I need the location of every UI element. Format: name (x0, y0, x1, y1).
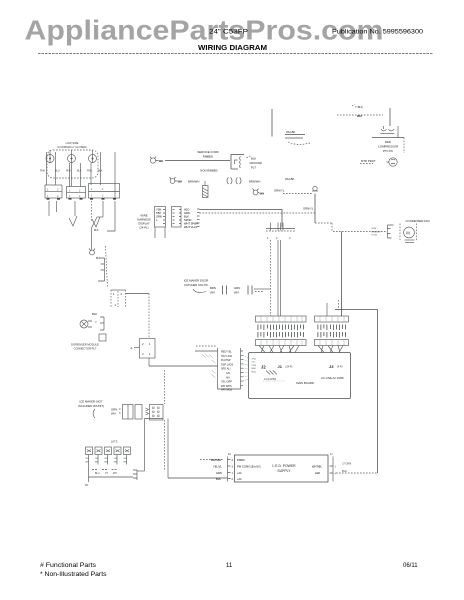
connector drops (154, 227, 156, 238)
strip J1 upper (256, 316, 307, 322)
svg-text:PWRC: PWRC (237, 458, 245, 462)
svg-text:GRN/YL: GRN/YL (274, 189, 285, 193)
J4 pin ticks right (241, 351, 244, 385)
svg-text:GROUND: GROUND (250, 161, 262, 165)
svg-text:CONNECTOR PLT: CONNECTOR PLT (74, 347, 97, 351)
svg-text:BLK: BLK (77, 170, 82, 173)
lamp L1 (46, 155, 54, 163)
wire lamp2 left lead (69, 163, 71, 187)
svg-text:+24: +24 (237, 471, 242, 475)
dashed lamp enclosure (47, 150, 98, 178)
svg-text:WH WHS: WH WHS (221, 385, 232, 388)
wire service cord line (165, 160, 230, 162)
wire below P3 right (102, 201, 104, 217)
board inner pin labels (252, 359, 257, 374)
strip J1 wire labels (258, 325, 304, 338)
svg-text:GRN: GRN (216, 471, 222, 475)
svg-text:YL2: YL2 (252, 362, 257, 364)
svg-text:BLK: BLK (94, 229, 99, 232)
main board box (249, 353, 351, 399)
wire stub C with arrow (74, 201, 76, 216)
wire right rail (377, 310, 379, 474)
ground symbol (313, 186, 317, 190)
svg-text:1: 1 (47, 189, 49, 192)
title rule (38, 53, 433, 55)
svg-text:DISPENSER MODULE: DISPENSER MODULE (71, 343, 99, 347)
svg-text:Publication No. 5995596300: Publication No. 5995596300 (332, 29, 424, 36)
svg-text:PLATNP: PLATNP (221, 359, 231, 362)
svg-text:SERVICE CORD: SERVICE CORD (197, 150, 218, 154)
light LED3 (105, 447, 112, 455)
wire to bundle (254, 288, 270, 290)
wire stub A (48, 201, 50, 216)
connector K1 (1 2 / 1) (111, 289, 126, 291)
svg-text:BRN/WH: BRN/WH (249, 180, 260, 184)
svg-text:RUN: RUN (372, 228, 377, 230)
svg-text:3: 3 (289, 236, 291, 240)
wire P3 right lead top (114, 152, 116, 198)
svg-text:VT: VT (105, 473, 109, 475)
svg-text:BLK: BLK (92, 312, 97, 316)
wire dashed pointer (247, 156, 252, 158)
connector pins row (47, 198, 117, 200)
connector pair (123, 405, 134, 420)
connector bars 1 (223, 286, 227, 295)
arrows (146, 408, 149, 415)
svg-text:L: L (156, 218, 158, 222)
PTC relay box (372, 137, 404, 139)
svg-text:1: 1 (149, 352, 151, 356)
svg-text:PTC PK: PTC PK (383, 149, 393, 153)
lamp L2 (68, 155, 76, 163)
svg-text:WHT/BL: WHT/BL (312, 465, 322, 469)
svg-text:1: 1 (149, 342, 151, 346)
svg-text:INCLUDED W/UNIT): INCLUDED W/UNIT) (78, 404, 104, 408)
svg-text:ICE MAKER DOOR: ICE MAKER DOOR (184, 279, 209, 283)
svg-text:BLK: BLK (184, 215, 189, 219)
dispenser light DL1 (80, 320, 88, 328)
strip J1 lower (256, 340, 307, 346)
svg-text:SUPPLY: SUPPLY (277, 469, 291, 473)
svg-text:PNK: PNK (40, 170, 45, 173)
svg-text:YEL-GRP: YEL-GRP (221, 381, 232, 384)
svg-text:1: 1 (113, 292, 115, 296)
wire lamp3 left lead (90, 163, 92, 185)
wire long run to J4 (149, 365, 218, 367)
svg-text:PK: PK (85, 484, 89, 487)
overload protector (389, 158, 397, 166)
svg-text:2: 2 (142, 342, 144, 346)
svg-text:41: 41 (330, 453, 333, 456)
wire ground drop (314, 194, 316, 224)
wire dashed below P3 (91, 201, 93, 221)
svg-text:GRN/YL: GRN/YL (303, 207, 314, 211)
svg-text:GN: GN (226, 372, 230, 375)
connector P1 (45, 185, 62, 198)
svg-text:AC LINE AC PWR: AC LINE AC PWR (321, 376, 344, 380)
fan-out J1 to board (259, 346, 299, 353)
input bracket (228, 457, 231, 482)
svg-text:HAT LICD: HAT LICD (221, 355, 232, 358)
wire drop right (167, 419, 169, 479)
wire dashed WH run (337, 114, 383, 116)
connector column 1 (155, 207, 166, 228)
light LED5 (124, 447, 131, 455)
J4 top dashed lead (196, 345, 217, 347)
light LED1 (86, 447, 93, 455)
connector P2 (67, 187, 86, 199)
connector small (99, 334, 106, 341)
svg-text:SPD ALI: SPD ALI (221, 368, 231, 371)
wire display dashed run (200, 212, 317, 214)
arc (193, 289, 206, 292)
svg-text:BLK: BLK (216, 477, 221, 481)
wire dashed diagonal to dispenser (106, 246, 108, 288)
svg-text:GN1: GN1 (252, 359, 257, 361)
svg-text:YEL/VL: YEL/VL (213, 465, 222, 469)
svg-text:A: A (131, 346, 133, 350)
svg-text:1: 1 (91, 188, 93, 191)
svg-text:WIRING DIAGRAM: WIRING DIAGRAM (198, 43, 267, 52)
svg-text:* Non-Illustrated Parts: * Non-Illustrated Parts (40, 572, 107, 578)
receptacle connector (150, 405, 164, 421)
svg-text:J4 (14 PIN): J4 (14 PIN) (264, 378, 276, 381)
fan motor M1 (404, 227, 415, 238)
wire dashed BLK/WH (200, 459, 223, 461)
svg-text:RD5: RD5 (252, 371, 257, 373)
svg-text:COMPRESSOR: COMPRESSOR (378, 145, 398, 149)
svg-text:BLK/WH: BLK/WH (211, 458, 221, 462)
svg-text:LT GRN: LT GRN (342, 462, 351, 466)
bus dashes (92, 469, 118, 471)
svg-text:CONDENSER FAN: CONDENSER FAN (406, 219, 430, 223)
svg-text:1: 1 (335, 466, 337, 469)
svg-text:BLK: BLK (251, 157, 256, 161)
arrow V2 (92, 217, 100, 227)
svg-text:41: 41 (228, 453, 231, 456)
arrow V1 (69, 216, 77, 226)
svg-text:PNK: PNK (66, 170, 71, 173)
fuse F1 (203, 186, 209, 198)
relay pins (381, 129, 394, 131)
svg-text:PLUG: PLUG (372, 235, 378, 237)
wire bus link (137, 470, 145, 472)
bracket pins (98, 258, 105, 281)
svg-text:WH: WH (357, 114, 362, 118)
J4 column rails (218, 348, 241, 389)
svg-text:1: 1 (47, 195, 49, 198)
svg-text:2: 2 (142, 352, 144, 356)
wire dashed step right (315, 222, 332, 224)
J4 fan to board dashed (243, 355, 250, 381)
svg-text:CATCHER SOL PK: CATCHER SOL PK (184, 283, 208, 287)
svg-text:Y BLK: Y BLK (355, 105, 363, 109)
svg-text:BRN/WH: BRN/WH (188, 180, 199, 184)
J4 wire name labels (221, 351, 233, 392)
wire module drop (148, 358, 150, 366)
svg-text:WH: WH (178, 180, 183, 184)
svg-text:AN: AN (226, 376, 230, 379)
svg-text:RIBBED: RIBBED (203, 155, 213, 159)
wire BLK long run (168, 477, 227, 479)
svg-text:+24: +24 (237, 477, 242, 481)
connector bracket (388, 225, 394, 238)
svg-text:HAT MCB: HAT MCB (221, 389, 232, 392)
plug symbol 3 (253, 190, 258, 195)
svg-text:NON RIBBED: NON RIBBED (200, 169, 217, 173)
wire bundle dashed (270, 240, 272, 316)
wire long right drop (107, 201, 115, 231)
strip J3 lower (315, 340, 349, 346)
wire bundle solid pair (277, 240, 279, 316)
plug symbol 2 (170, 179, 175, 184)
svg-text:MAIN BOARD: MAIN BOARD (296, 381, 314, 385)
connector P3 (89, 184, 120, 199)
wire from K1 to right (126, 293, 150, 295)
winding labels (372, 228, 382, 237)
light drops (89, 455, 127, 478)
svg-text:BLK: BLK (98, 170, 103, 173)
svg-text:BLU: BLU (55, 170, 60, 173)
output bracket (330, 457, 334, 482)
svg-text:1: 1 (232, 472, 234, 475)
svg-text:(S NORMALLY CLOSED): (S NORMALLY CLOSED) (57, 145, 87, 149)
wire lamp2 right lead (80, 163, 82, 187)
svg-text:(24 PL): (24 PL) (139, 226, 148, 230)
wire dashed drop to dispenser module (148, 294, 150, 339)
svg-text:(24 P): (24 P) (286, 366, 293, 369)
wire compressor feed (389, 108, 391, 126)
svg-text:GRN: GRN (156, 215, 162, 219)
wire J3 feeder stubs (326, 303, 328, 316)
wire J3 to right rail (335, 309, 378, 311)
svg-text:J3: J3 (329, 364, 334, 369)
wire lamp1 right lead (55, 152, 57, 185)
svg-text:3: 3 (232, 466, 234, 469)
svg-text:BLU: BLU (342, 469, 347, 473)
svg-text:J2: J2 (261, 365, 266, 370)
light LED2 (95, 447, 102, 455)
svg-text:WH: WH (159, 159, 164, 163)
svg-text:WH: WH (210, 291, 215, 295)
pin ticks (197, 209, 200, 227)
svg-text:ICE MAKER (NOT: ICE MAKER (NOT (80, 400, 103, 404)
PK stub (88, 477, 90, 482)
svg-text:2: 2 (57, 189, 59, 192)
svg-text:11: 11 (226, 563, 233, 569)
svg-text:LOW SIDE: LOW SIDE (66, 141, 79, 145)
svg-text:2: 2 (57, 195, 59, 198)
connector bars 2 (248, 286, 252, 295)
svg-text:REDY BL: REDY BL (221, 351, 232, 354)
svg-text:YDK: YDK (156, 208, 162, 212)
wire vertical stub (271, 109, 273, 137)
svg-text:RED: RED (385, 140, 391, 144)
svg-text:GRN: GRN (234, 286, 240, 290)
svg-text:J1: J1 (278, 364, 283, 369)
svg-text:PNK: PNK (87, 170, 92, 173)
bracket pins 2 (100, 317, 104, 330)
svg-text:PW CONN 1B (+5V): PW CONN 1B (+5V) (237, 465, 261, 469)
small strip connector (266, 228, 295, 230)
plug symbol PL1 (90, 250, 95, 255)
svg-text:BLU: BLU (95, 473, 100, 475)
svg-text:GRN: GRN (184, 211, 190, 215)
lamp L3 (89, 155, 97, 163)
svg-text:2: 2 (276, 236, 278, 240)
svg-text:1: 1 (267, 236, 269, 240)
wire dashed feed (333, 231, 386, 233)
lights bus (89, 476, 134, 478)
svg-text:C: C (232, 478, 234, 481)
svg-text:WH: WH (113, 473, 117, 475)
svg-text:SPOD: SPOD (184, 218, 191, 222)
wire stub B (56, 201, 58, 212)
LED power supply box (235, 455, 329, 482)
wire drop left (144, 419, 146, 472)
svg-text:AppliancePartsPros.com: AppliancePartsPros.com (25, 15, 384, 46)
svg-text:WH-BK: WH-BK (285, 177, 294, 181)
svg-text:1: 1 (69, 195, 71, 198)
svg-text:(4 P): (4 P) (337, 366, 343, 369)
svg-text:A: A (232, 459, 234, 462)
dispenser light leads (88, 321, 92, 327)
svg-text:BLK: BLK (96, 257, 101, 260)
svg-text:DSP LVDS: DSP LVDS (221, 363, 233, 366)
svg-text:# Functional Parts: # Functional Parts (40, 563, 96, 569)
ground plate bracket (231, 155, 244, 170)
svg-text:BRN: BRN (210, 286, 216, 290)
svg-text:OR3: OR3 (252, 365, 257, 367)
svg-text:2: 2 (79, 195, 81, 198)
svg-text:L.E.D. POWER: L.E.D. POWER (272, 464, 296, 468)
svg-text:PLT: PLT (251, 166, 256, 170)
svg-text:Y: Y (95, 320, 97, 324)
svg-text:LKTS: LKTS (111, 440, 118, 444)
svg-text:WH: WH (111, 412, 116, 416)
svg-text:M: M (406, 231, 410, 236)
wire condenser drop (341, 232, 343, 317)
svg-text:24" C53FP: 24" C53FP (209, 29, 248, 36)
J4 hatch marks (202, 355, 216, 378)
svg-text:1: 1 (91, 195, 93, 198)
svg-text:WH-BK: WH-BK (286, 130, 295, 134)
svg-text:MTR PROT: MTR PROT (361, 159, 376, 163)
plug symbol service (150, 158, 155, 163)
svg-text:WHT SPWR: WHT SPWR (184, 222, 198, 226)
svg-text:WH: WH (260, 192, 265, 196)
svg-text:LED: LED (315, 471, 320, 475)
svg-text:TBC: TBC (156, 211, 161, 215)
svg-text:2: 2 (102, 188, 104, 191)
svg-text:1: 1 (115, 303, 117, 307)
wire lamp3 right lead (100, 152, 102, 185)
svg-text:H2O: H2O (184, 208, 189, 212)
strip J3 upper (315, 316, 349, 322)
wire drop dashed (164, 420, 166, 470)
wire corner (97, 216, 103, 218)
bus bracket (133, 470, 137, 480)
svg-text:WHT VLLO: WHT VLLO (184, 225, 197, 229)
wire dashed return (336, 472, 378, 474)
wire display solid run (200, 210, 283, 228)
dashed motor enclosure (399, 224, 401, 241)
connector column 2 (172, 207, 182, 228)
svg-text:WH: WH (234, 291, 239, 295)
svg-text:BN4: BN4 (252, 368, 257, 370)
wire dashed drop to icemaker (164, 370, 166, 404)
inline bracket pair (227, 178, 232, 185)
light LED4 (114, 447, 121, 455)
svg-text:2: 2 (102, 195, 104, 198)
lead A (134, 347, 140, 349)
wire slanted drop (92, 217, 98, 250)
fan-out J3 to board (318, 346, 343, 353)
wire dashed ground run (283, 193, 313, 195)
arc (93, 409, 95, 418)
wire color labels (40, 170, 103, 173)
wire lamp1 left lead (46, 152, 48, 185)
svg-text:06/11: 06/11 (403, 563, 418, 569)
dispenser module box (140, 339, 156, 359)
wire dashed stubs (119, 409, 123, 413)
light pin labels (86, 458, 128, 464)
J2 fan hatches (266, 371, 277, 375)
svg-text:2: 2 (121, 292, 123, 296)
strip J3 wire labels (318, 325, 346, 338)
